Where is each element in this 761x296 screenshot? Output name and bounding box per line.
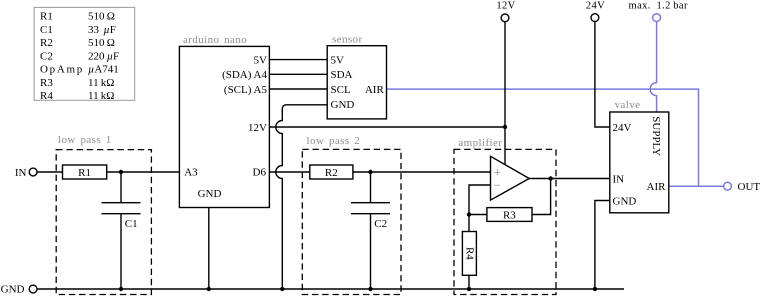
sensor block xyxy=(327,34,386,119)
svg-text:GND: GND xyxy=(1,283,25,295)
wire R1 to arduino A3 xyxy=(107,171,180,173)
capacitor C2 xyxy=(351,172,390,289)
node R1/C1 junction xyxy=(119,170,123,174)
svg-text:SUPPLY: SUPPLY xyxy=(650,116,662,156)
component value table xyxy=(34,7,135,102)
node arduino GND on rail xyxy=(207,287,211,291)
svg-text:510 Ω: 510 Ω xyxy=(88,37,115,49)
wire arduino GND to rail xyxy=(208,208,210,290)
wire sensor AIR to OUT (blue air line) xyxy=(387,89,699,186)
terminal max. 1.2 bar xyxy=(629,0,688,21)
resistor R4 xyxy=(462,215,476,276)
low pass 2 dashed box xyxy=(302,135,401,294)
supply 12V terminal xyxy=(496,0,515,21)
wire arduino D6 to R2 xyxy=(270,171,310,173)
wire valve GND to rail xyxy=(595,201,610,290)
svg-text:IN: IN xyxy=(15,167,27,179)
node feedback junction xyxy=(467,212,471,216)
node valve GND on rail xyxy=(593,287,597,291)
resistor R3 xyxy=(487,208,532,222)
svg-text:R1: R1 xyxy=(40,11,53,23)
svg-text:R1: R1 xyxy=(78,167,91,179)
arduino nano block xyxy=(179,34,269,208)
svg-text:−: − xyxy=(494,178,501,193)
svg-text:12V: 12V xyxy=(248,122,267,134)
wire 12V rail down to op-amp xyxy=(504,22,506,165)
svg-text:(SDA) A4: (SDA) A4 xyxy=(222,69,267,81)
node 12V junction xyxy=(503,125,507,129)
svg-text:amplifier: amplifier xyxy=(458,137,502,149)
svg-text:R2: R2 xyxy=(325,167,338,179)
terminal GND xyxy=(1,283,37,295)
svg-text:R3: R3 xyxy=(40,77,53,89)
svg-text:AIR: AIR xyxy=(647,181,667,193)
wire R2 to op-amp + input xyxy=(353,171,491,173)
svg-text:OUT: OUT xyxy=(738,181,761,193)
svg-text:valve: valve xyxy=(615,99,641,111)
wire arduino 12V pin to 12V rail xyxy=(270,126,505,128)
svg-text:220 µF: 220 µF xyxy=(88,50,119,62)
wire sensor GND to rail (jumps over 12V and D6 wires) xyxy=(276,105,327,289)
capacitor C1 xyxy=(102,172,141,289)
node C1 to ground rail xyxy=(119,287,123,291)
svg-text:5V: 5V xyxy=(331,55,345,67)
svg-text:sensor: sensor xyxy=(332,34,363,46)
node output junction xyxy=(548,176,552,180)
svg-text:24V: 24V xyxy=(586,0,605,11)
resistor R2 xyxy=(310,165,353,179)
svg-text:GND: GND xyxy=(198,188,222,200)
svg-text:510 Ω: 510 Ω xyxy=(88,11,115,23)
wire R3 to output xyxy=(532,179,551,215)
svg-text:max. 1.2 bar: max. 1.2 bar xyxy=(629,0,688,11)
svg-text:arduino nano: arduino nano xyxy=(183,34,247,46)
wire op-amp output to valve IN xyxy=(529,178,610,180)
svg-text:R2: R2 xyxy=(40,37,53,49)
terminal IN xyxy=(15,167,37,179)
svg-text:GND: GND xyxy=(331,99,355,111)
svg-text:C2: C2 xyxy=(374,218,387,230)
svg-text:33 µF: 33 µF xyxy=(88,24,116,36)
resistor R1 xyxy=(63,165,107,179)
svg-text:5V: 5V xyxy=(254,55,268,67)
wire 24V to valve xyxy=(595,22,610,128)
wire valve AIR to OUT xyxy=(669,185,724,187)
svg-text:IN: IN xyxy=(613,173,625,185)
svg-text:µA741: µA741 xyxy=(88,64,119,76)
node sensor GND on rail xyxy=(280,287,284,291)
node C2 to rail xyxy=(368,287,372,291)
amplifier dashed box xyxy=(454,137,556,295)
wire node to R3 xyxy=(469,214,487,216)
svg-text:11 kΩ: 11 kΩ xyxy=(88,77,114,89)
wire arduino A4 to sensor SDA xyxy=(270,73,328,75)
wire supply max1.2bar to valve SUPPLY (with jump) xyxy=(650,22,657,113)
ground rail xyxy=(37,288,624,290)
svg-text:low pass 1: low pass 1 xyxy=(58,134,112,146)
svg-text:SCL: SCL xyxy=(331,84,351,96)
low pass 1 dashed box xyxy=(56,134,151,295)
svg-text:OpAmp: OpAmp xyxy=(40,64,84,76)
svg-text:24V: 24V xyxy=(613,122,632,134)
svg-text:low pass 2: low pass 2 xyxy=(307,135,361,147)
svg-text:C1: C1 xyxy=(125,218,138,230)
wire R4 to rail xyxy=(468,275,470,289)
wire arduino 5V to sensor 5V xyxy=(270,59,328,61)
svg-text:R4: R4 xyxy=(463,247,475,260)
wire arduino A5 to sensor SCL xyxy=(270,88,328,90)
svg-text:C1: C1 xyxy=(40,24,53,36)
svg-text:C2: C2 xyxy=(40,50,53,62)
valve block xyxy=(610,99,669,213)
svg-text:R3: R3 xyxy=(503,209,516,221)
svg-text:R4: R4 xyxy=(40,90,53,102)
node R2/C2 junction xyxy=(368,170,372,174)
svg-text:A3: A3 xyxy=(184,166,198,178)
node R4 on rail xyxy=(467,287,471,291)
svg-text:12V: 12V xyxy=(496,0,515,11)
svg-text:D6: D6 xyxy=(253,166,267,178)
svg-text:(SCL) A5: (SCL) A5 xyxy=(224,84,268,96)
svg-text:AIR: AIR xyxy=(365,84,385,96)
op-amp U2 xyxy=(491,156,530,200)
svg-text:GND: GND xyxy=(613,195,637,207)
terminal OUT xyxy=(724,181,761,193)
wire IN to R1 xyxy=(37,171,63,173)
svg-text:11 kΩ: 11 kΩ xyxy=(88,90,114,102)
supply 24V terminal xyxy=(586,0,605,21)
svg-text:SDA: SDA xyxy=(331,69,353,81)
wire op-amp inverting input to feedback node xyxy=(469,185,491,215)
